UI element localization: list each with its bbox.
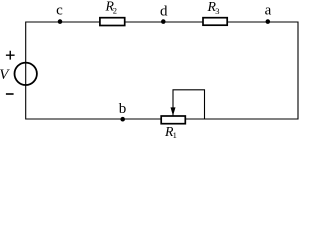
svg-text:1: 1 xyxy=(173,130,177,140)
svg-text:c: c xyxy=(56,3,63,19)
svg-text:b: b xyxy=(119,101,127,117)
svg-text:a: a xyxy=(265,3,272,19)
svg-text:2: 2 xyxy=(113,5,117,15)
svg-text:d: d xyxy=(160,3,168,19)
svg-text:3: 3 xyxy=(215,6,219,16)
svg-text:V: V xyxy=(0,67,10,83)
